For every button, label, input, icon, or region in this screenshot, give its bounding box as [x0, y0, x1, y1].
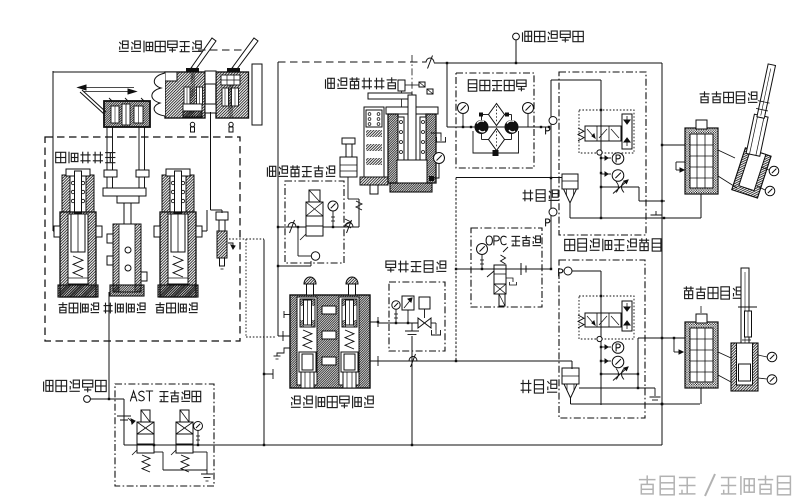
IP drain gauge line y388 — [579, 387, 655, 389]
AST internal supply line — [124, 444, 264, 446]
trip block top notch — [205, 71, 216, 84]
label: 主油泵来油 (top) — [522, 32, 524, 41]
main supply dashed line — [278, 61, 426, 63]
oil injection valve side tabs — [154, 226, 160, 237]
IP link lines — [718, 352, 731, 358]
HP link lines — [718, 150, 735, 158]
AST solenoid valve 1 — [141, 410, 150, 422]
oil injection valve stem — [75, 171, 82, 213]
operating valve side tabs — [107, 234, 113, 243]
main pump oil inlet (主油泵来油) — [43, 382, 45, 392]
safety operation box dashed border — [45, 137, 240, 341]
actuator base (hatched) — [390, 183, 432, 192]
trip valve left column — [297, 297, 317, 385]
trip valve block body (hatched) — [290, 295, 370, 388]
wire: bottom return bus y445 — [264, 444, 662, 446]
wire: stub into trip valve block — [278, 335, 290, 337]
actuator top fittings — [398, 80, 405, 91]
actuator inner sleeves (dotted) — [398, 117, 404, 178]
oil injection valve body (hatched) — [60, 212, 96, 297]
port symbol top (Po) — [549, 117, 557, 125]
oil injection valve side tabs — [54, 226, 60, 237]
OPC line y269 — [456, 268, 551, 270]
IP Po port — [564, 267, 572, 275]
HP drain line — [569, 203, 571, 218]
filter main line — [447, 126, 549, 128]
wire: riser x456 — [455, 178, 457, 362]
lever foot B — [227, 68, 240, 72]
trip valve center slots — [322, 306, 336, 314]
operating valve (操作滑阀) — [103, 188, 146, 196]
IP piston rod — [741, 268, 749, 343]
HP manifold feed riser — [600, 80, 602, 218]
IP pilot block — [685, 322, 718, 388]
HP pilot block — [685, 128, 718, 194]
AST solenoid valve group box — [115, 384, 214, 486]
OPC gauge — [477, 244, 488, 255]
HP gauge upper — [761, 167, 769, 170]
IP cartridge valve — [562, 368, 579, 384]
HP gauge 2 — [601, 173, 611, 175]
oil injection valve spring posts — [162, 175, 170, 212]
main supply line (solid) — [434, 62, 662, 64]
oil injection valve bottom flange — [158, 285, 198, 297]
trip valve spool left — [300, 299, 315, 327]
actuator right port — [429, 176, 434, 181]
latch valve box border — [389, 282, 445, 351]
junction to manifold Po — [550, 268, 552, 270]
dotted wire x246 — [245, 239, 247, 337]
filter element top (diamond) — [489, 104, 505, 126]
linkage arrows — [80, 87, 134, 89]
label: 高压油动机 — [704, 91, 706, 97]
accumulator tap symbol — [117, 415, 131, 417]
wire: left feed down to valve 1 — [52, 71, 54, 231]
latch solenoid square — [402, 296, 414, 310]
trip block housing right half (hatched) — [216, 72, 249, 118]
label: emergency governor lever (危急遮断器杠杆) — [119, 42, 121, 44]
label: 油动机控制集成块 — [565, 239, 575, 250]
wire: trip outlet to manifold H — [378, 360, 572, 362]
IP gauge upper — [758, 355, 767, 357]
actuator piston rod — [368, 93, 412, 99]
oil injection valve bottom flange — [58, 285, 98, 297]
HP manifold box border — [559, 72, 646, 235]
actuator top flange — [386, 107, 438, 114]
AST solenoid valve 2 — [180, 410, 189, 422]
trip valve spool right — [342, 299, 357, 327]
IP directional valve — [585, 313, 621, 327]
IP manifold feed riser — [600, 271, 602, 405]
pilot spool column — [364, 107, 384, 177]
trip valve stems and caps — [307, 284, 314, 295]
wire: mini piston to solenoid line — [347, 177, 349, 199]
HP cartridge valve (插装阀) — [562, 174, 578, 189]
label: 保安操纵箱 — [56, 152, 66, 162]
AST drain run — [154, 451, 163, 453]
wire: right bus x662 — [661, 63, 663, 445]
pipe pair to operating valve (left) — [106, 127, 108, 188]
pipe pair to operating valve (right) — [138, 127, 140, 188]
label: 中压油动机 — [684, 287, 694, 289]
label: 插装阀 (bottom) — [521, 383, 532, 385]
wire: port column x551 — [550, 80, 552, 269]
HP gauge P — [601, 157, 611, 159]
oil injection valve spring posts — [62, 175, 70, 212]
label: 主汽门操纵座 — [325, 79, 327, 88]
actuator top-right drain — [431, 133, 441, 137]
trip block left fittings — [283, 311, 285, 318]
HP pilot column rect — [622, 114, 632, 149]
hop crossing — [426, 58, 434, 63]
wire: branch y266 — [278, 265, 311, 267]
label: 插装阀 (top) — [523, 192, 534, 194]
HP directional valve — [585, 126, 621, 141]
solenoid gauge — [328, 201, 338, 211]
label: 挂闸电动阀 — [386, 261, 396, 268]
wire: HP servo feed y145 — [662, 144, 685, 146]
OPC solenoid valve — [494, 265, 506, 284]
label: 危急遮断器滑阀 — [291, 397, 293, 399]
solenoid valve symbol — [309, 190, 320, 202]
IP manifold inner dotted box — [579, 296, 634, 339]
IP cylinder — [731, 343, 758, 391]
label: 双联滤油器 — [468, 80, 477, 91]
IP feed bracket to block — [673, 338, 675, 352]
right end plate — [252, 64, 262, 125]
latch motor square — [419, 297, 430, 309]
trip block housing left half (hatched) — [165, 72, 205, 118]
HP block feed bracket — [676, 161, 685, 163]
port symbol mid (Po) — [549, 208, 557, 216]
lever foot A — [186, 68, 199, 72]
HP manifold output — [638, 187, 640, 201]
wire: solenoid supply line — [278, 226, 306, 228]
filter right gauge — [523, 103, 534, 114]
oil injection valve stem — [175, 171, 182, 213]
IP gauge 2 — [601, 360, 611, 362]
filter changeover ball left — [475, 121, 488, 134]
oil injection valve body (hatched) — [160, 212, 196, 297]
latch drain ground — [411, 323, 413, 331]
actuator cylinder walls (hatched) — [388, 114, 398, 183]
label: AST 电磁阀组 — [130, 391, 136, 401]
IP subbox port circle — [597, 336, 602, 341]
OPC box border — [471, 228, 542, 307]
lever arm 2 — [232, 38, 258, 69]
HP cylinder (tilted) — [732, 148, 771, 198]
wire: operating valve bottom down — [108, 292, 110, 398]
actuator centerline — [411, 55, 413, 107]
accumulator symbol on line — [520, 263, 522, 275]
wire: filter feed drop — [446, 63, 448, 127]
spool bottom flange — [360, 177, 388, 185]
solenoid drain bell — [297, 227, 299, 256]
filter box border — [456, 73, 534, 168]
filter changeover ball right — [505, 121, 518, 134]
left mini piston — [342, 138, 355, 144]
pin symbol A — [190, 122, 194, 126]
IP throttle — [601, 373, 638, 375]
IP gauge lower — [758, 378, 767, 379]
latch gauge — [392, 301, 400, 309]
pilot relay valve (right of cylinders) — [216, 212, 228, 220]
label: OPC电磁阀 — [486, 236, 492, 245]
trip block right spool — [229, 85, 234, 118]
AST gauge — [194, 422, 203, 431]
filter piping — [481, 115, 483, 121]
wire: manifold feed y80 — [551, 79, 601, 81]
trip valve right column — [339, 297, 359, 385]
trip block right ports — [370, 321, 378, 323]
lever pivot dashed line — [198, 49, 245, 51]
IP gauge P — [601, 346, 611, 348]
filter left gauge — [458, 103, 469, 114]
HP subbox port circle — [597, 150, 602, 155]
frame line to trip housing — [53, 71, 165, 73]
labels: 喷油滑阀 操作滑阀 喷油滑阀 — [62, 302, 64, 307]
watermark: 头条号 / 电气技术 — [646, 475, 648, 484]
HP gauge lower — [757, 186, 765, 190]
actuator lower piston — [397, 160, 427, 183]
actuator gauge — [434, 153, 445, 164]
IP cartridge drain — [570, 398, 572, 404]
HP drain tank symbol — [655, 211, 657, 215]
scallop edge — [152, 73, 165, 116]
trip block top-left step — [165, 72, 177, 81]
IP block bottom stem — [700, 388, 702, 404]
HP manifold inner dotted box — [579, 110, 634, 153]
IP pilot column rect — [622, 301, 632, 331]
pin symbol B — [229, 122, 233, 126]
trip block right spool crown — [221, 75, 240, 85]
IP manifold box border — [559, 260, 645, 418]
wire: main left riser x278 — [277, 62, 279, 336]
latch valve line — [378, 322, 418, 324]
trip block bottom notch — [205, 104, 216, 113]
trip block left spool — [191, 73, 196, 118]
wire: supply branch y178 — [456, 177, 562, 179]
dotted wire from pilot relay valve — [229, 238, 264, 240]
IP output to servomotor — [637, 338, 639, 388]
HP throttle — [601, 186, 639, 188]
wire: riser x264 (AST to trip valve) — [263, 240, 265, 446]
latch shutoff valve (bowtie) — [418, 318, 425, 328]
solenoid box border — [285, 181, 344, 263]
filter element bottom (diamond) — [489, 129, 505, 151]
HP block bottom stem — [700, 194, 702, 218]
linkage lever diagonal — [80, 92, 104, 114]
filter drain loop — [473, 131, 519, 153]
wire: spool drain riser x359 — [358, 199, 360, 227]
wire: right mechanism down to valve 2 — [210, 112, 212, 210]
lever arm 1 — [191, 38, 216, 69]
pilot box top ticks — [109, 98, 112, 101]
pilot valve box (hatched) — [104, 101, 150, 127]
label: 主汽门电磁阀 — [266, 167, 268, 176]
